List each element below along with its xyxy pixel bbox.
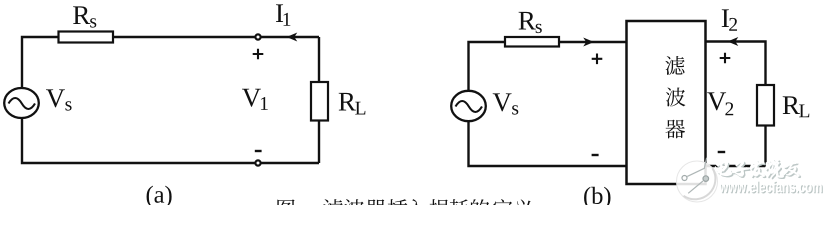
minus sign (b) input (592, 154, 599, 156)
label RL (a): subscript L (355, 102, 365, 115)
plus sign (a) (253, 49, 264, 60)
node: (a) bottom terminal (255, 160, 260, 165)
current arrow I1 (left) (287, 33, 298, 42)
watermark char 电 white face (715, 161, 732, 176)
label RL (a): R (339, 93, 356, 111)
wire: (b) filter output to RL (706, 42, 766, 86)
wire: (a) bottom rail + left lower (22, 118, 319, 164)
watermark char 烧 gray shadow (767, 160, 785, 179)
label (b) (584, 187, 610, 209)
wire: (b) left + top rail to filter (469, 42, 627, 91)
watermark char 子 white face (732, 160, 749, 176)
wire: (b) RL bottom to filter (706, 126, 766, 167)
voltage source VS (a) (4, 88, 39, 118)
label (a) (147, 186, 172, 208)
wire: (a) left + top rail (22, 37, 319, 89)
filter block: box (627, 21, 706, 184)
wire: (b) bottom rail to filter (469, 121, 627, 166)
label VS (a): V (46, 89, 65, 107)
wire: (a) right branch bottom (318, 120, 320, 163)
caption char 入 (407, 199, 427, 218)
watermark char 子 gray shadow (733, 162, 750, 178)
label RL (b): subscript L (799, 105, 809, 118)
wire: (a) right branch top (318, 37, 320, 83)
label RS (b): R (519, 12, 536, 30)
watermark url gray shadow (720, 182, 822, 194)
watermark logo needle lower line (688, 181, 703, 193)
label RL (b): R (783, 96, 800, 114)
caption char 波 (344, 199, 364, 218)
label I2: I (722, 9, 729, 27)
label RS (a): subscript s (90, 18, 96, 27)
node: (a) top terminal (255, 34, 260, 39)
caption char 图 (277, 199, 294, 218)
watermark char 发 white face (750, 160, 765, 177)
current arrow I2 (left) (728, 37, 739, 46)
label VS (a): subscript s (65, 101, 71, 110)
watermark logo needle upper line (687, 158, 706, 177)
label V2: subscript 2 (725, 102, 733, 115)
resistor RL (a) body (311, 82, 328, 121)
minus sign (b) output (718, 151, 726, 153)
label V1: V (242, 89, 261, 107)
label V1: subscript 1 (261, 97, 268, 110)
watermark char 友 gray shadow (785, 161, 801, 177)
watermark char 发 gray shadow (752, 161, 767, 178)
filter label char 波 (666, 88, 686, 107)
caption char 定 (493, 199, 513, 218)
caption char 器 (366, 199, 386, 218)
label I2: subscript 2 (729, 18, 737, 31)
resistor RS (a) body (59, 32, 114, 43)
label I1: subscript 1 (284, 13, 291, 26)
caption char 滤 (323, 199, 343, 218)
current arrow into filter (right) (583, 38, 594, 47)
label RS (a): R (73, 6, 90, 24)
watermark char 烧 white face (765, 159, 783, 178)
resistor RL (b) body (757, 85, 774, 126)
caption char 损 (429, 199, 448, 218)
label V2: V (707, 92, 726, 110)
watermark logo shadow arc (684, 168, 716, 199)
resistor RS (b) body (505, 37, 559, 47)
filter label char 滤 (665, 56, 684, 75)
voltage source VS (b) (451, 91, 486, 121)
caption char 的 (471, 199, 489, 218)
watermark char 电 gray shadow (716, 162, 733, 177)
minus sign (a) (255, 150, 262, 152)
filter label char 器 (665, 120, 685, 139)
sine wave in source (a) (9, 98, 36, 109)
plus sign (b) output (720, 53, 731, 64)
watermark logo pivot circle left (682, 176, 687, 181)
caption char 耗 (449, 199, 469, 218)
sine wave in source (b) (456, 101, 483, 112)
label RS (b): subscript s (536, 24, 542, 33)
caption char 义 (514, 199, 534, 218)
label VS (b): subscript s (512, 105, 518, 114)
label VS (b): V (493, 93, 512, 111)
plus sign (b) input (592, 54, 603, 65)
label I1: I (276, 4, 283, 22)
watermark url white face (719, 181, 821, 193)
watermark logo pivot circle right (703, 176, 709, 182)
caption char 插 (388, 199, 408, 218)
watermark logo circle (677, 161, 718, 202)
watermark char 友 white face (784, 160, 800, 176)
